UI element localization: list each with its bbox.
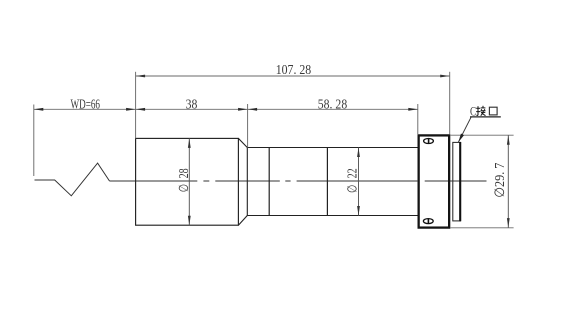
taper top edge (238, 138, 247, 147)
barrel Φ22 tube (247, 148, 418, 216)
svg-text:∅29. 7: ∅29. 7 (492, 162, 507, 197)
screw bottom (423, 219, 433, 224)
extension line WD left (33, 105, 35, 177)
extension line barrel step (247, 104, 249, 148)
lens front cylinder Φ28 body (136, 138, 239, 225)
svg-text:∅: ∅ (176, 184, 191, 192)
svg-text:107. 28: 107. 28 (276, 63, 312, 78)
barrel divider ring 1 (268, 148, 270, 216)
C-mount label hanzi kou (口) (489, 107, 497, 115)
centerline solid lead-in (110, 180, 198, 182)
centerline dash-dot axis (203, 180, 486, 182)
taper bottom edge (238, 216, 247, 226)
svg-text:∅: ∅ (344, 185, 359, 193)
svg-text:C: C (470, 104, 476, 119)
extension line lens front (135, 72, 137, 139)
C-mount label leader arrowhead (458, 134, 464, 143)
extension line Φ29.7 top (451, 134, 514, 136)
dimension Φ28 line (188, 138, 190, 225)
svg-text:58. 28: 58. 28 (318, 97, 347, 112)
barrel divider ring 2 (326, 148, 328, 216)
C-mount ring (453, 142, 461, 221)
C-mount label underline (470, 116, 501, 118)
svg-text:WD=66: WD=66 (71, 96, 101, 111)
svg-text:22: 22 (344, 168, 359, 178)
svg-text:38: 38 (186, 97, 198, 112)
svg-text:28: 28 (176, 168, 191, 178)
extension line Φ29.7 bottom (451, 227, 514, 229)
mount flange thick outline (419, 135, 450, 227)
dimension Φ22 line (358, 148, 360, 216)
C-mount label hanzi jie (接) (476, 106, 485, 116)
extension line flange rear (449, 72, 451, 135)
extension line flange front (417, 104, 419, 134)
dimension Φ29.7 line (507, 135, 509, 228)
dimension 107.28 line (136, 75, 450, 77)
screw top (424, 139, 434, 144)
C-mount ring thick right edge (459, 142, 461, 221)
C-mount label leader line (458, 117, 471, 142)
dimension 58.28 line (248, 108, 418, 110)
object-plane break line (zigzag) (35, 163, 110, 196)
dimension 38 line (136, 108, 248, 110)
dimension WD=66 line (34, 108, 136, 110)
